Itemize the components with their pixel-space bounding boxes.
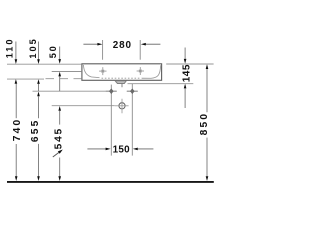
rim extension line right (166, 63, 213, 65)
svg-text:545: 545 (53, 127, 64, 149)
dimension 740 (12, 84, 23, 181)
floor line (7, 181, 214, 183)
trap level line (52, 105, 115, 107)
trap circle (115, 99, 129, 113)
svg-text:105: 105 (28, 37, 38, 58)
fixing hole vertical left (110, 85, 112, 156)
dimension 105 (28, 37, 40, 91)
dimension 280 (83, 40, 160, 60)
dimension 150 (87, 145, 153, 156)
basin inner bowl hidden bottom (dotted) (102, 77, 142, 79)
fixing hole marker right (127, 89, 138, 94)
faucet hole cross right (137, 67, 144, 75)
svg-text:110: 110 (5, 37, 15, 58)
fixing holes level line (33, 90, 117, 92)
dimension 110 (5, 37, 18, 83)
drain waste outline below basin (115, 81, 126, 87)
dimension 145 (182, 48, 193, 109)
fixing hole vertical right (131, 84, 133, 156)
svg-text:50: 50 (48, 45, 58, 59)
svg-text:280: 280 (113, 40, 132, 51)
dimension 50 (48, 45, 61, 92)
dimension 850 (199, 64, 210, 181)
faucet hole cross left (99, 67, 106, 75)
dimension 655 (30, 92, 41, 182)
50 level line (52, 71, 82, 73)
svg-text:655: 655 (30, 118, 41, 142)
svg-text:150: 150 (113, 145, 131, 156)
fixing hole marker left (106, 89, 117, 94)
rim extension line left (7, 63, 81, 65)
svg-text:145: 145 (182, 64, 193, 82)
basin inner bowl curve left (83, 65, 99, 78)
fixing holes level tick right (127, 90, 138, 92)
110/105 level line (7, 78, 44, 80)
basin inner bowl curve right (142, 65, 161, 78)
hidden level dashes left of basin (46, 78, 82, 80)
svg-text:850: 850 (199, 112, 210, 136)
dimension 545 (53, 106, 65, 181)
washbasin body outline (82, 64, 162, 81)
svg-text:740: 740 (12, 118, 23, 142)
outlet level line (145 bottom) (128, 83, 194, 85)
